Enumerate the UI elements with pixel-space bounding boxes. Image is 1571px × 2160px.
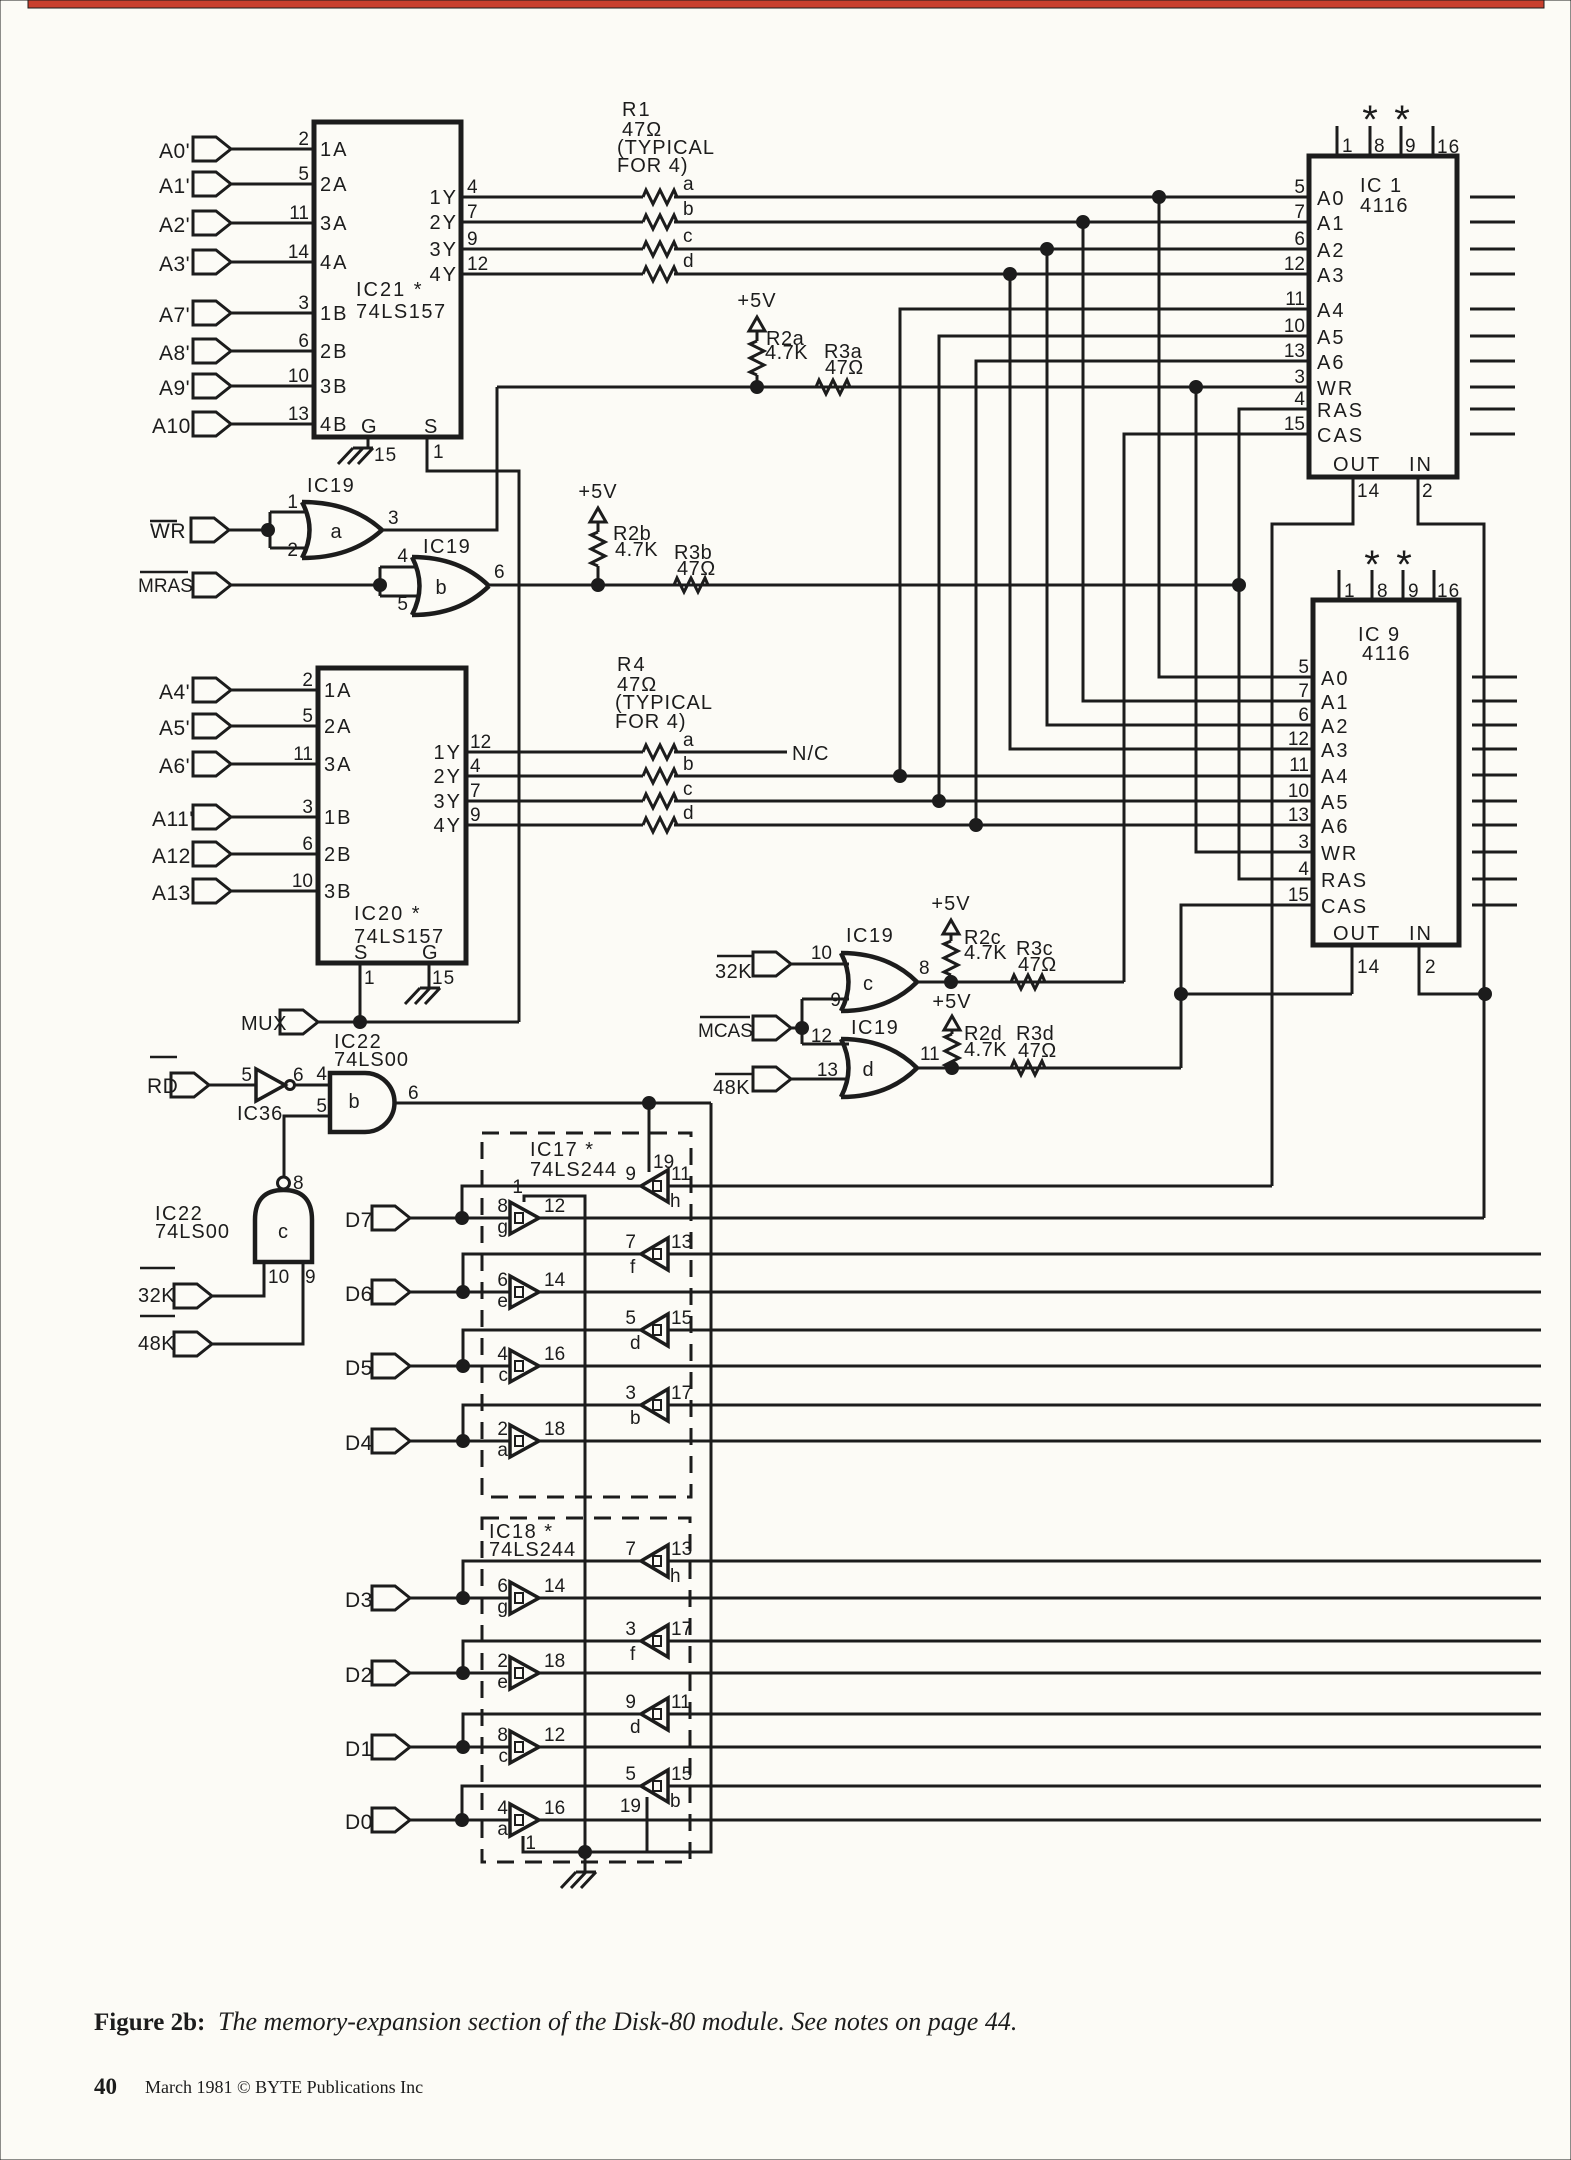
svg-text:10: 10 [811, 943, 832, 964]
svg-text:A6': A6' [159, 755, 190, 778]
svg-text:3A: 3A [320, 213, 348, 235]
svg-text:*: * [1396, 543, 1412, 587]
buffer IC17b (pins 3/17) [625, 1383, 692, 1429]
svg-text:2: 2 [298, 129, 309, 150]
svg-text:32K: 32K [715, 961, 752, 983]
svg-text:4: 4 [467, 177, 478, 198]
svg-text:IC19: IC19 [423, 536, 471, 558]
svg-text:1A: 1A [320, 139, 348, 161]
IC9 pin 10 (A5) label [1288, 781, 1350, 814]
IC9 pin 15 (CAS) label [1288, 885, 1368, 918]
data bus line from IC17e [539, 1291, 1541, 1294]
IC9 pin 6 (A2) label [1298, 705, 1349, 738]
svg-text:A2: A2 [1317, 240, 1345, 262]
svg-text:IC17 *: IC17 * [530, 1139, 595, 1161]
svg-text:12: 12 [544, 1196, 565, 1217]
input flag A2' to IC21 pin 11 (3A) [159, 203, 348, 237]
input flag D7 [345, 1206, 510, 1232]
input flag A11' to IC20 pin 3 (1B) [152, 797, 352, 831]
svg-text:RAS: RAS [1317, 400, 1364, 422]
svg-text:A13': A13' [152, 882, 195, 905]
svg-text:MCAS: MCAS [698, 1021, 753, 1042]
IC22 74LS00 label (gate c) [155, 1203, 230, 1243]
IC9 pin OUT (14) wire [1181, 923, 1381, 994]
buffer IC18c (pins 8/12) [497, 1725, 565, 1767]
svg-text:S: S [354, 942, 368, 964]
svg-text:15: 15 [1288, 885, 1309, 906]
svg-text:5: 5 [298, 164, 309, 185]
svg-text:A6: A6 [1321, 816, 1349, 838]
svg-text:6: 6 [1298, 705, 1309, 726]
input flag MRAS (active low) [138, 572, 380, 597]
data bus line from IC18c [539, 1746, 1541, 1749]
node enable bus junction with ground [579, 1846, 592, 1873]
svg-text:3B: 3B [320, 376, 348, 398]
svg-text:12: 12 [467, 254, 488, 275]
input flag 32K to IC22c pin10 [138, 1262, 264, 1308]
svg-text:g: g [497, 1217, 508, 1238]
IC1 4116 box [1309, 156, 1457, 477]
svg-text:A0: A0 [1317, 188, 1345, 210]
svg-text:74LS00: 74LS00 [155, 1221, 230, 1243]
wire WR row to IC1 pin WR [497, 386, 1309, 389]
svg-text:15: 15 [432, 968, 455, 989]
inverter IC36 [237, 1065, 304, 1125]
svg-text:18: 18 [544, 1419, 565, 1440]
IC20 output 4Y pin 9 label [434, 805, 481, 837]
buffer IC18d (pins 9/11) [625, 1692, 690, 1738]
svg-text:A4: A4 [1317, 300, 1345, 322]
IC22 74LS00 label (gate b) [334, 1031, 409, 1071]
IC18 74LS244 dashed outline [482, 1518, 690, 1862]
svg-text:D0: D0 [345, 1811, 373, 1834]
data bus line into IC17b [668, 1404, 1541, 1407]
svg-text:3: 3 [388, 508, 399, 529]
IC9 top pin ticks 1 8 9 16 with asterisks [1339, 543, 1460, 602]
svg-text:A1: A1 [1321, 692, 1349, 714]
wire IC17g enable pin1 to ground bus [524, 1196, 585, 1852]
input flag D0 [345, 1808, 510, 1834]
svg-text:IC19: IC19 [851, 1017, 899, 1039]
wire IC18d output down to D1 node [457, 1714, 642, 1754]
IC20 pin S (1) wire down to MUX [354, 942, 376, 1022]
junction and wire up to IC1 A6 [970, 361, 1310, 832]
figure caption [94, 2007, 1017, 2036]
svg-text:+5V: +5V [931, 893, 970, 915]
junction and wire down to IC9 A2 [1041, 243, 1314, 726]
power +5V via R2d 4.7K [932, 991, 1007, 1075]
data bus line from IC18a [539, 1819, 1541, 1822]
svg-text:4.7K: 4.7K [765, 342, 808, 364]
IC1 right-side continuation stubs [1470, 197, 1515, 434]
svg-text:*: * [1394, 98, 1410, 142]
svg-text:40: 40 [94, 2074, 117, 2099]
buffer IC18e (pins 2/18) [497, 1651, 565, 1693]
svg-text:3B: 3B [324, 881, 352, 903]
wire IC22b output pin6 [395, 1102, 711, 1105]
buffer IC18g (pins 6/14) [497, 1576, 565, 1618]
svg-text:12: 12 [1288, 729, 1309, 750]
buffer IC17e (pins 6/14) [497, 1270, 565, 1312]
svg-text:14: 14 [544, 1576, 566, 1597]
wire IC19a output pin3 up to WR row [382, 387, 497, 530]
IC1 pin 3 (WR) label [1294, 367, 1354, 400]
wire IC21 AY row to IC1 A0 with resistor R1a [461, 174, 1309, 204]
IC1 pin 5 (A0) label [1294, 177, 1345, 210]
data bus line from IC17a [539, 1440, 1541, 1443]
svg-text:12: 12 [811, 1026, 832, 1047]
IC21 output 1Y pin 4 label [430, 177, 478, 209]
IC1 pin 10 (A5) label [1284, 316, 1346, 349]
input flag A9' to IC21 pin 10 (3B) [159, 366, 348, 400]
svg-text:OUT: OUT [1333, 454, 1381, 476]
svg-text:5: 5 [316, 1096, 327, 1117]
svg-text:3: 3 [625, 1383, 636, 1404]
power +5V via R2a 4.7K [737, 290, 808, 394]
svg-text:2: 2 [302, 670, 313, 691]
svg-text:MRAS: MRAS [138, 576, 193, 597]
svg-text:12: 12 [470, 732, 491, 753]
svg-text:f: f [630, 1644, 636, 1665]
IC1 pin 13 (A6) label [1284, 341, 1346, 374]
svg-text:7: 7 [625, 1539, 636, 1560]
svg-text:13: 13 [1284, 341, 1305, 362]
svg-text:6: 6 [298, 331, 309, 352]
svg-text:1: 1 [1344, 581, 1356, 602]
wire IC20 b row with resistor R4b to IC9 A4 [466, 754, 1313, 783]
svg-text:9: 9 [470, 805, 481, 826]
svg-text:11: 11 [671, 1692, 691, 1713]
buffer IC17c (pins 4/16) [497, 1344, 565, 1386]
svg-text:12: 12 [1284, 254, 1305, 275]
wire IC17b output down to D4 node [457, 1405, 642, 1448]
input flag A0' to IC21 pin 2 (1A) [159, 129, 348, 163]
svg-text:48K: 48K [138, 1333, 175, 1355]
wire IC19b output pin6 (RAS line) [489, 584, 1239, 587]
input flag D6 [345, 1280, 510, 1306]
svg-text:h: h [670, 1191, 681, 1212]
IC9 pin 11 (A4) label [1289, 755, 1349, 788]
svg-text:a: a [497, 1440, 508, 1461]
svg-text:4.7K: 4.7K [964, 1039, 1007, 1061]
svg-text:4A: 4A [320, 252, 348, 274]
buffer IC17g (pins 8/12, enable 1) [497, 1177, 565, 1238]
wire IC22b output down right side to IC18 enables [647, 1103, 711, 1852]
input flag 48K (active low) [713, 1067, 849, 1099]
svg-text:3: 3 [625, 1619, 636, 1640]
node D7 junction [456, 1212, 469, 1225]
svg-text:1: 1 [1342, 136, 1354, 157]
svg-text:6: 6 [1294, 229, 1305, 250]
node MCAS junction to IC19c pin9 and IC19d pin12 [796, 999, 850, 1044]
IC1 pin 7 (A1) label [1294, 202, 1345, 235]
IC21 pin G (15) with ground [338, 416, 397, 466]
wire IC18f output down to D2 node [457, 1641, 642, 1680]
svg-text:7: 7 [467, 202, 478, 223]
svg-text:4116: 4116 [1362, 643, 1411, 665]
svg-text:1: 1 [364, 968, 376, 989]
buffer IC18a (pins 4/16, enable 1) [497, 1798, 565, 1854]
svg-text:e: e [497, 1672, 508, 1693]
svg-text:8: 8 [497, 1725, 508, 1746]
svg-text:4: 4 [316, 1064, 327, 1085]
power +5V via R2c 4.7K [931, 893, 1007, 989]
svg-text:12: 12 [544, 1725, 565, 1746]
power +5V via R2b 4.7K [578, 481, 658, 592]
IC9 4116 box [1313, 600, 1459, 945]
svg-text:CAS: CAS [1317, 425, 1364, 447]
svg-text:A0: A0 [1321, 668, 1349, 690]
buffer IC17h (pins 9/11, enable 19) [625, 1152, 690, 1212]
svg-text:b: b [670, 1791, 681, 1812]
buffer IC17d (pins 5/15) [625, 1308, 692, 1354]
svg-text:74LS157: 74LS157 [356, 301, 447, 323]
svg-text:4Y: 4Y [434, 815, 462, 837]
svg-text:7: 7 [1294, 202, 1305, 223]
svg-text:13: 13 [671, 1539, 692, 1560]
svg-text:4.7K: 4.7K [615, 539, 658, 561]
svg-text:a: a [683, 730, 694, 751]
IC1 pin IN (2) wire [1409, 454, 1484, 1218]
svg-text:4: 4 [1294, 389, 1305, 410]
IC20 pin G (15) with ground [405, 942, 455, 1004]
svg-text:A0': A0' [159, 140, 190, 163]
IC21 output 4Y pin 12 label [430, 254, 489, 286]
wire IC20 d row with resistor R4d to IC9 A6 [466, 803, 1313, 832]
wire IC17d output down to D5 node [457, 1330, 642, 1373]
svg-text:48K: 48K [713, 1077, 750, 1099]
IC1 top pin ticks 1 8 9 16 with asterisks [1337, 98, 1460, 158]
svg-text:R1: R1 [622, 99, 652, 121]
wire IC22b pin5 from IC22c output [284, 1116, 330, 1178]
junction and wire up to IC1 A4 [894, 309, 1310, 783]
input flag D4 [345, 1429, 510, 1455]
svg-text:c: c [683, 779, 693, 800]
svg-text:A8': A8' [159, 342, 190, 365]
junction WR row to IC9 WR [1190, 381, 1314, 853]
resistor R3b 47ohm [674, 542, 716, 592]
svg-text:IN: IN [1409, 923, 1433, 945]
input flag A13' to IC20 pin 10 (3B) [152, 871, 352, 905]
junction and wire down to IC9 A1 [1077, 216, 1314, 702]
svg-text:A6: A6 [1317, 352, 1345, 374]
svg-text:FOR 4): FOR 4) [617, 155, 689, 177]
resistor R3c 47ohm [1011, 938, 1057, 989]
svg-text:D5: D5 [345, 1357, 373, 1380]
buffer IC18b (pins 5/15, enable 19) [620, 1764, 692, 1817]
IC9 pin 5 (A0) label [1298, 657, 1349, 690]
svg-text:A4: A4 [1321, 766, 1349, 788]
svg-text:11: 11 [920, 1044, 940, 1065]
svg-text:A3: A3 [1317, 265, 1345, 287]
svg-text:A11': A11' [152, 808, 194, 831]
svg-text:6: 6 [497, 1270, 508, 1291]
input flag RD (active low) [147, 1057, 256, 1098]
IC9 pin IN (2) wire [1409, 923, 1492, 1001]
svg-text:4B: 4B [320, 414, 348, 436]
svg-text:WR: WR [150, 520, 186, 543]
svg-text:17: 17 [671, 1383, 692, 1404]
svg-text:d: d [683, 803, 694, 824]
svg-text:+5V: +5V [737, 290, 776, 312]
svg-text:RD: RD [147, 1075, 178, 1098]
svg-text:6: 6 [494, 562, 505, 583]
wire IC18b enable pin19 to bus [646, 1797, 649, 1852]
IC1 pin 11 (A4) label [1285, 289, 1345, 322]
svg-text:b: b [683, 754, 694, 775]
svg-text:6: 6 [293, 1065, 304, 1086]
input flag 32K (active low) [715, 952, 849, 983]
input flag A4' to IC20 pin 2 (1A) [159, 670, 352, 704]
svg-text:4: 4 [397, 546, 408, 567]
svg-text:2: 2 [287, 540, 298, 561]
svg-text:D3: D3 [345, 1589, 373, 1612]
IC1 pin OUT (14) wire [1272, 454, 1381, 1186]
svg-text:A9': A9' [159, 377, 190, 400]
svg-text:IC20 *: IC20 * [354, 903, 422, 925]
IC17 74LS244 dashed outline [482, 1133, 691, 1497]
svg-text:14: 14 [288, 242, 310, 263]
svg-text:d: d [630, 1717, 641, 1738]
node WR input junction [262, 512, 309, 548]
svg-text:d: d [683, 251, 694, 272]
IC21 pin S (1) wire to MUX bus [424, 416, 519, 1022]
svg-text:19: 19 [653, 1152, 674, 1173]
svg-text:3Y: 3Y [430, 239, 458, 261]
svg-text:16: 16 [544, 1344, 565, 1365]
svg-text:18: 18 [544, 1651, 565, 1672]
svg-text:13: 13 [817, 1060, 838, 1081]
svg-text:14: 14 [1357, 957, 1380, 978]
svg-text:CAS: CAS [1321, 896, 1368, 918]
svg-text:4Y: 4Y [430, 264, 458, 286]
svg-text:b: b [630, 1408, 641, 1429]
svg-text:10: 10 [268, 1267, 289, 1288]
svg-text:A3: A3 [1321, 740, 1349, 762]
svg-text:g: g [497, 1597, 508, 1618]
IC9 pin 7 (A1) label [1298, 681, 1349, 714]
input flag A6' to IC20 pin 11 (3A) [159, 744, 352, 778]
svg-text:16: 16 [1437, 581, 1460, 602]
svg-text:15: 15 [374, 445, 397, 466]
svg-text:f: f [630, 1257, 636, 1278]
svg-text:4: 4 [1298, 859, 1309, 880]
data bus line into IC18f [668, 1640, 1541, 1643]
svg-text:WR: WR [1321, 843, 1358, 865]
svg-text:c: c [683, 226, 693, 247]
svg-text:15: 15 [1284, 414, 1305, 435]
svg-text:2B: 2B [320, 341, 348, 363]
svg-text:d: d [630, 1333, 641, 1354]
data bus line into IC18d [668, 1713, 1541, 1716]
svg-text:47Ω: 47Ω [1018, 954, 1057, 976]
svg-text:9: 9 [625, 1164, 636, 1185]
IC1 pin 4 (RAS) label [1294, 389, 1364, 422]
svg-text:A2: A2 [1321, 716, 1349, 738]
svg-text:1: 1 [512, 1177, 523, 1198]
svg-text:4: 4 [470, 756, 481, 777]
svg-text:1Y: 1Y [434, 742, 462, 764]
wire IC21 DY row to IC1 A3 with resistor R1d [461, 251, 1309, 281]
svg-text:a: a [497, 1819, 508, 1840]
svg-text:*: * [1364, 543, 1380, 587]
svg-text:1B: 1B [324, 807, 352, 829]
svg-text:7: 7 [470, 781, 481, 802]
svg-text:5: 5 [397, 594, 408, 615]
junction and wire down to IC9 A3 [1004, 268, 1314, 750]
svg-text:1: 1 [287, 492, 298, 513]
svg-text:IC19: IC19 [846, 925, 894, 947]
or-gate IC19c [811, 925, 930, 1011]
data bus line from IC18g [539, 1597, 1541, 1600]
svg-text:7: 7 [625, 1232, 636, 1253]
svg-text:e: e [497, 1291, 508, 1312]
wire IC21 CY row to IC1 A2 with resistor R1c [461, 226, 1309, 256]
svg-text:2: 2 [497, 1419, 508, 1440]
IC20 output 3Y pin 7 label [434, 781, 481, 813]
svg-text:1: 1 [433, 442, 445, 463]
wire IC20 c row with resistor R4c to IC9 A5 [466, 779, 1313, 808]
svg-text:4: 4 [497, 1344, 508, 1365]
buffer IC17a (pins 2/18) [497, 1419, 565, 1461]
svg-text:8: 8 [497, 1196, 508, 1217]
svg-text:14: 14 [1357, 481, 1380, 502]
wire up to IC1 CAS [1124, 434, 1309, 982]
IC9 pin 13 (A6) label [1288, 805, 1350, 838]
svg-text:5: 5 [625, 1764, 636, 1785]
IC20 output 2Y pin 4 label [434, 756, 481, 788]
svg-text:1Y: 1Y [430, 187, 458, 209]
svg-text:2: 2 [497, 1651, 508, 1672]
svg-text:9: 9 [467, 229, 478, 250]
junction RAS line, wire to IC1 RAS and IC9 RAS [1233, 409, 1314, 879]
svg-text:47Ω: 47Ω [825, 357, 864, 379]
svg-text:c: c [499, 1746, 509, 1767]
svg-text:IN: IN [1409, 454, 1433, 476]
data bus line from IC18e [539, 1672, 1541, 1675]
svg-text:A7': A7' [159, 304, 190, 327]
wire IC9 CAS pin left and down [1175, 905, 1314, 1068]
svg-text:D7: D7 [345, 1209, 373, 1232]
svg-text:2Y: 2Y [430, 212, 458, 234]
IC21 74LS157 box [314, 122, 461, 437]
junction and wire down to IC9 A0 [1153, 191, 1314, 678]
svg-text:b: b [348, 1091, 359, 1113]
svg-text:b: b [683, 199, 694, 220]
IC1 pin 6 (A2) label [1294, 229, 1345, 262]
IC21 output 2Y pin 7 label [430, 202, 478, 234]
svg-text:IC21 *: IC21 * [356, 279, 424, 301]
input flag D2 [345, 1661, 510, 1687]
svg-text:74LS244: 74LS244 [530, 1159, 617, 1181]
svg-text:+5V: +5V [932, 991, 971, 1013]
svg-text:47Ω: 47Ω [1018, 1040, 1057, 1062]
svg-text:3: 3 [298, 293, 309, 314]
svg-text:*: * [1362, 98, 1378, 142]
input flag A7' to IC21 pin 3 (1B) [159, 293, 348, 327]
junction to IC17 pin19 enable [643, 1097, 656, 1173]
svg-text:74LS244: 74LS244 [489, 1539, 576, 1561]
input flag A8' to IC21 pin 6 (2B) [159, 331, 348, 365]
IC21 output 3Y pin 9 label [430, 229, 478, 261]
svg-text:4: 4 [497, 1798, 508, 1819]
svg-text:14: 14 [544, 1270, 566, 1291]
svg-text:11: 11 [1289, 755, 1309, 776]
svg-text:2Y: 2Y [434, 766, 462, 788]
svg-text:N/C: N/C [792, 743, 829, 765]
svg-text:5: 5 [625, 1308, 636, 1329]
svg-text:10: 10 [1288, 781, 1309, 802]
